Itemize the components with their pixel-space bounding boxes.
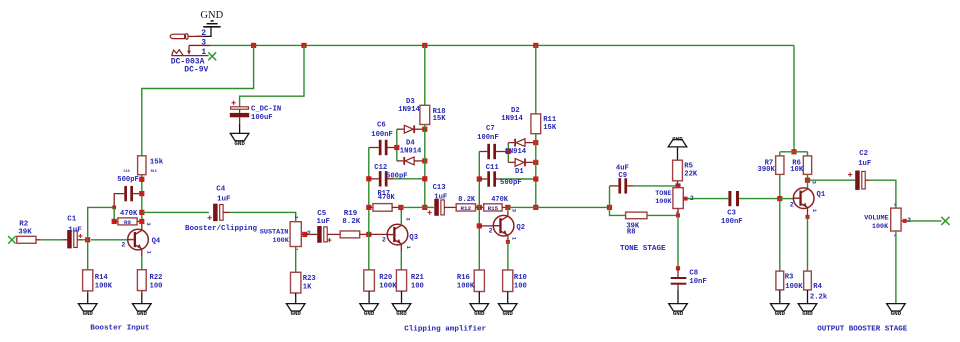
wire R7 base to R3: [779, 199, 781, 272]
wire R19 to node: [360, 233, 369, 235]
svg-text:100K: 100K: [785, 283, 803, 291]
junction diode column bottom: [422, 205, 427, 210]
wire SUSTAIN to R23: [295, 247, 297, 273]
transistor Q3: [387, 224, 408, 245]
label R4: [810, 283, 828, 301]
svg-text:D3: D3: [406, 98, 415, 106]
junction C7 right: [506, 149, 511, 154]
ground flipped above R5: [668, 135, 687, 147]
capacitor C2: [848, 171, 865, 190]
resistor R4: [804, 271, 812, 290]
wire R23 to ground: [295, 293, 297, 304]
svg-text:100nF: 100nF: [371, 131, 393, 139]
junction C12 left: [366, 176, 371, 181]
resistor R9: [118, 218, 137, 226]
resistor R6: [803, 156, 811, 175]
resistor R3: [776, 271, 784, 290]
svg-text:22K: 22K: [684, 170, 698, 178]
junction collector out: [139, 210, 144, 215]
wire Q3 collector: [400, 207, 402, 225]
pin square Q1 emitter: [806, 215, 810, 219]
label tiny C10: [124, 170, 130, 174]
svg-text:R8: R8: [627, 229, 636, 237]
capacitor C_DC-IN: [230, 101, 249, 134]
junction rail B: [301, 43, 306, 48]
junction output supply tee: [791, 149, 796, 154]
resistor R15: [484, 204, 502, 212]
pin 1 of TONE: [674, 211, 678, 214]
svg-text:D2: D2: [511, 107, 520, 115]
ground under C_DC-IN: [230, 133, 249, 146]
svg-text:C12: C12: [374, 164, 387, 172]
capacitor C8: [671, 268, 687, 303]
wire C4 to SUSTAIN: [223, 212, 296, 221]
svg-text:15k: 15k: [150, 159, 164, 167]
pin 3 of TONE: [674, 183, 678, 186]
svg-text:1uF: 1uF: [68, 227, 82, 235]
jack pin 3 down arrow: [187, 45, 191, 55]
svg-text:8.2K: 8.2K: [342, 218, 361, 226]
wire Q1 emitter: [807, 208, 809, 217]
svg-text:1uF: 1uF: [217, 196, 231, 204]
junction base node Q4: [85, 237, 90, 242]
junction D3 cathode: [422, 127, 427, 132]
junction rail A: [251, 43, 256, 48]
wire R17 right stub: [392, 206, 401, 208]
svg-text:R23: R23: [303, 275, 316, 283]
svg-text:1: 1: [811, 209, 817, 212]
pin 2 of Q2: [489, 228, 493, 235]
resistor R2: [17, 236, 36, 243]
svg-text:Q1: Q1: [817, 191, 826, 199]
capacitor C11 500pF: [479, 171, 536, 186]
junction VOLUME wiper: [903, 219, 907, 223]
label C3: [721, 210, 743, 227]
wire jack pin 3: [189, 44, 211, 46]
svg-text:500pF: 500pF: [500, 179, 522, 187]
ground under R21: [392, 304, 411, 317]
pin number 2: [201, 29, 206, 38]
wire wiper to C3: [688, 198, 729, 200]
svg-text:39K: 39K: [18, 229, 32, 237]
wire emitter to R10: [507, 242, 509, 270]
wire R14 to ground: [87, 291, 89, 304]
wire collector to C2: [808, 179, 856, 181]
wire rail to R18: [424, 45, 426, 105]
svg-text:100K: 100K: [95, 282, 113, 290]
capacitor C6 100nF: [369, 140, 397, 155]
svg-text:R20: R20: [379, 274, 392, 282]
pin 1 of Q1: [811, 209, 817, 212]
ground under R14: [78, 304, 97, 317]
wire R22 to ground: [141, 291, 143, 304]
wire R18 down: [424, 125, 426, 208]
svg-text:Booster Input: Booster Input: [90, 324, 149, 332]
junction Q1 collector node: [805, 178, 810, 183]
wire R20 to ground: [368, 291, 370, 304]
capacitor C9: [610, 178, 679, 193]
label C4: [216, 186, 231, 204]
svg-text:390K: 390K: [758, 166, 776, 174]
svg-text:GND: GND: [234, 140, 245, 147]
svg-text:8.2K: 8.2K: [458, 196, 476, 204]
pin 2 of Q1: [790, 201, 794, 208]
svg-text:TONE: TONE: [655, 190, 671, 198]
wire +9V power rail: [211, 44, 795, 46]
resistor R10: [503, 270, 513, 292]
junction diode column bottom stage3: [533, 205, 538, 210]
ground under R3: [771, 304, 790, 317]
wire pin2 to earth: [196, 28, 211, 37]
wire R8 to pot: [647, 214, 678, 216]
diode D4 1N914: [397, 157, 425, 165]
junction pot bottom node: [676, 213, 680, 217]
svg-text:R22: R22: [150, 274, 163, 282]
label R23: [303, 275, 316, 292]
svg-text:2.2k: 2.2k: [810, 293, 828, 301]
svg-text:470K: 470K: [120, 210, 138, 218]
ground under R20: [360, 304, 379, 317]
svg-text:C6: C6: [377, 122, 386, 130]
label C12: [374, 164, 387, 172]
svg-text:10nF: 10nF: [689, 278, 706, 286]
junction Q3 base node: [366, 232, 371, 237]
label D1: [515, 168, 524, 176]
svg-text:1uF: 1uF: [434, 194, 447, 202]
junction TONE wiper: [683, 197, 687, 201]
svg-text:2: 2: [121, 242, 125, 249]
svg-text:D1: D1: [515, 168, 524, 176]
resistor R22: [137, 270, 146, 291]
wire R11 down: [535, 134, 537, 208]
wire VOLUME to ground: [895, 231, 897, 304]
svg-text:100uF: 100uF: [251, 114, 273, 122]
svg-text:SUSTAIN: SUSTAIN: [260, 229, 289, 237]
wire rail to R11: [535, 45, 537, 114]
pin number 3: [201, 39, 206, 48]
label Q4: [152, 237, 161, 245]
wire wiper to C5: [305, 233, 317, 235]
svg-text:R9: R9: [124, 219, 132, 226]
ground under R22: [133, 304, 152, 317]
transistor Q2: [493, 215, 514, 236]
svg-text:R11: R11: [543, 116, 557, 124]
svg-text:2: 2: [307, 230, 311, 237]
svg-text:R13: R13: [151, 170, 157, 174]
label R19: [342, 210, 361, 226]
label VOLUME: [864, 215, 889, 231]
label 500pF: [117, 176, 139, 184]
svg-text:GND: GND: [290, 310, 301, 317]
wire R15 right stub: [502, 206, 508, 208]
svg-text:100: 100: [514, 282, 527, 290]
wire R17 left stub: [369, 206, 373, 208]
label TONE STAGE: [620, 245, 666, 253]
capacitor C13: [428, 199, 445, 216]
svg-text:2: 2: [790, 201, 794, 208]
label C8: [689, 269, 706, 286]
wire rail to C_DC-IN branch: [240, 45, 304, 106]
label Booster Input: [90, 324, 149, 332]
wire R15 left stub: [479, 206, 483, 208]
junction C10 right: [139, 191, 144, 196]
node X input: [8, 236, 16, 244]
label C2: [858, 150, 871, 168]
svg-text:500pF: 500pF: [117, 176, 139, 184]
svg-text:3: 3: [405, 217, 411, 220]
svg-text:1N914: 1N914: [398, 106, 420, 114]
svg-text:GND: GND: [672, 135, 683, 142]
svg-text:C_DC-IN: C_DC-IN: [251, 106, 281, 114]
resistor R20: [364, 270, 375, 291]
label C7: [477, 125, 499, 142]
svg-text:1N914: 1N914: [400, 147, 422, 155]
svg-text:Booster/Clipping: Booster/Clipping: [185, 225, 258, 233]
node X output: [941, 217, 949, 225]
potentiometer VOLUME 100K: [891, 208, 908, 231]
svg-text:GND: GND: [200, 10, 223, 21]
wire supply tee: [780, 152, 808, 156]
svg-text:R14: R14: [95, 274, 109, 282]
svg-text:500pF: 500pF: [386, 172, 408, 180]
junction R12 R15 node: [477, 205, 482, 210]
svg-text:R15: R15: [488, 205, 499, 212]
label R2: [18, 220, 32, 236]
label R8: [626, 223, 640, 237]
ground earth symbol: [203, 21, 220, 27]
svg-text:R4: R4: [813, 283, 822, 291]
svg-text:TONE STAGE: TONE STAGE: [620, 245, 666, 253]
capacitor C1: [67, 230, 82, 248]
label R14: [95, 274, 113, 291]
wire R9 right stub: [137, 220, 142, 222]
label TONE: [655, 190, 672, 206]
resistor R23: [291, 272, 301, 293]
wire R6 to collector node: [807, 174, 809, 180]
wire diode pair left stage3: [507, 143, 509, 163]
wire diode pair left: [396, 129, 398, 161]
wire R5 to pot top: [677, 181, 679, 186]
wire R21 to ground: [401, 291, 403, 304]
ground under R4: [798, 304, 817, 317]
wire base to Q3: [369, 233, 388, 235]
ground under R16: [470, 304, 489, 317]
junction Q1 base node: [777, 196, 782, 201]
wire collector to C4: [142, 211, 209, 213]
pin 1 of Q2: [511, 237, 517, 240]
label C_DC-IN value: [251, 106, 281, 122]
label R21: [411, 274, 425, 291]
label Q1: [817, 191, 826, 199]
ground under VOLUME: [887, 304, 906, 317]
svg-text:Q2: Q2: [516, 224, 525, 232]
svg-text:470K: 470K: [378, 194, 396, 202]
svg-text:GND: GND: [364, 310, 375, 317]
label 1N914 of D1: [505, 148, 527, 156]
label C9: [616, 165, 629, 180]
svg-text:3: 3: [511, 209, 517, 212]
wire collector node down: [807, 180, 809, 188]
label R17: [378, 190, 396, 202]
pin 3 of SUSTAIN: [293, 216, 297, 219]
svg-text:C13: C13: [433, 184, 446, 192]
svg-text:1: 1: [405, 246, 411, 249]
diode D2 1N914: [508, 139, 536, 147]
svg-text:100: 100: [411, 282, 424, 290]
pin square Q2 emitter: [506, 240, 510, 244]
label 470K of R15: [491, 196, 509, 204]
junction Q2 base node: [477, 223, 482, 228]
svg-text:100: 100: [150, 282, 163, 290]
label 8.2K of R12: [458, 196, 476, 204]
svg-text:470K: 470K: [491, 196, 509, 204]
svg-text:1uF: 1uF: [317, 218, 331, 226]
pin 2 of Q3: [382, 237, 386, 244]
svg-text:C10: C10: [124, 170, 130, 174]
svg-text:C5: C5: [317, 210, 327, 218]
wire R4 to ground: [807, 290, 809, 304]
pin 2 of Q4: [121, 242, 125, 249]
svg-text:GND: GND: [82, 310, 93, 317]
junction Q2 collector node: [505, 205, 510, 210]
svg-text:10K: 10K: [790, 166, 804, 174]
pin 2 of TONE: [690, 195, 694, 202]
connector J1 sleeve pin 2: [170, 34, 203, 40]
label C6: [371, 122, 393, 139]
wire tone input column: [610, 186, 626, 216]
label C1: [67, 215, 82, 234]
label C5: [317, 210, 331, 226]
pin 3 of Q2: [511, 209, 517, 212]
capacitor C3: [728, 191, 739, 206]
wire emitter Q4: [141, 250, 143, 270]
resistor R14: [83, 270, 93, 291]
pin 3 of Q1: [811, 181, 817, 184]
wire Q2 emitter: [507, 236, 509, 242]
wire R12 right stub: [476, 206, 480, 208]
svg-text:100nF: 100nF: [477, 134, 499, 142]
resistor R12: [456, 204, 475, 212]
label Q3: [409, 234, 418, 242]
label R16: [457, 274, 475, 291]
capacitor C10 500pF: [124, 186, 133, 201]
svg-text:R3: R3: [785, 274, 794, 282]
resistor R5: [673, 160, 683, 181]
ground under R23: [286, 304, 305, 317]
potentiometer TONE 100K: [673, 188, 690, 209]
connector J1 body DC-003A: [172, 50, 196, 56]
svg-text:C9: C9: [618, 172, 627, 180]
svg-text:GND: GND: [396, 310, 407, 317]
svg-text:R10: R10: [514, 274, 527, 282]
svg-text:1: 1: [145, 251, 151, 254]
svg-text:100K: 100K: [273, 237, 290, 245]
wire rail down to output: [793, 45, 795, 151]
junction pot top node: [675, 183, 680, 188]
wire base to Q2: [479, 225, 493, 227]
svg-text:2: 2: [201, 29, 206, 38]
svg-text:Q4: Q4: [152, 237, 161, 245]
wire stage3 column: [478, 152, 480, 271]
junction rail C: [422, 43, 427, 48]
svg-text:1K: 1K: [303, 284, 312, 292]
ground under C8: [669, 304, 688, 317]
label R6: [790, 159, 804, 174]
svg-text:C3: C3: [727, 210, 736, 218]
svg-text:Q3: Q3: [409, 234, 418, 242]
pin 3 of Q3: [405, 217, 411, 220]
node X input of jack: [208, 52, 216, 60]
junction D4 anode: [422, 158, 427, 163]
pin 3 of VOLUME: [892, 203, 896, 206]
capacitor C5: [317, 226, 331, 243]
wire base to Q4: [91, 239, 128, 241]
svg-text:R21: R21: [411, 274, 425, 282]
label Clipping amplifier: [404, 325, 486, 333]
label DC-003A: [171, 57, 205, 66]
svg-text:VOLUME: VOLUME: [864, 215, 888, 223]
svg-text:C4: C4: [216, 186, 226, 194]
wire C10 right: [133, 193, 142, 195]
label R5: [684, 163, 698, 179]
wire gnd to R5: [677, 147, 679, 160]
wire R9 left stub: [114, 220, 118, 222]
wire base node to R14: [87, 240, 89, 270]
capacitor C7 100nF: [479, 144, 508, 159]
transistor Q4: [128, 229, 149, 250]
svg-text:C11: C11: [486, 164, 500, 172]
wire jack pin 1: [195, 55, 209, 57]
svg-text:15K: 15K: [433, 115, 447, 123]
svg-text:3: 3: [145, 222, 151, 225]
resistor R18: [420, 105, 430, 124]
svg-text:100K: 100K: [655, 198, 672, 206]
label D4: [400, 140, 422, 156]
svg-text:100K: 100K: [872, 223, 889, 231]
label 500pF of C12: [386, 172, 408, 180]
svg-text:GND: GND: [775, 310, 786, 317]
svg-text:100K: 100K: [379, 282, 397, 290]
svg-text:1: 1: [511, 237, 517, 240]
pin 1 of Q4: [145, 251, 151, 254]
svg-text:3: 3: [201, 39, 206, 48]
wire to C10 left: [114, 194, 124, 208]
wire C2 to VOLUME: [865, 180, 896, 208]
svg-text:2: 2: [382, 237, 386, 244]
node GND label: [200, 10, 223, 21]
junction 15k bottom: [139, 177, 144, 182]
wire base to Q1: [780, 198, 794, 200]
capacitor C4: [208, 204, 224, 222]
svg-text:R16: R16: [457, 274, 470, 282]
wire collector column: [141, 175, 143, 230]
resistor R13 15k: [138, 156, 146, 175]
label R7: [758, 159, 776, 174]
pin 2 of VOLUME: [907, 217, 911, 224]
junction R9 left: [112, 219, 117, 224]
svg-text:GND: GND: [802, 310, 813, 317]
diode D1 1N914: [508, 159, 536, 167]
diode D3 1N914: [397, 125, 425, 133]
ground under R10: [498, 304, 517, 317]
resistor R16: [474, 270, 484, 292]
wire pot bottom to C8: [677, 215, 679, 268]
label D2: [501, 107, 523, 123]
label DC-9V: [184, 66, 208, 75]
svg-text:Clipping amplifier: Clipping amplifier: [404, 325, 486, 333]
wire Q3 emitter: [400, 244, 402, 270]
svg-text:D4: D4: [406, 140, 415, 148]
